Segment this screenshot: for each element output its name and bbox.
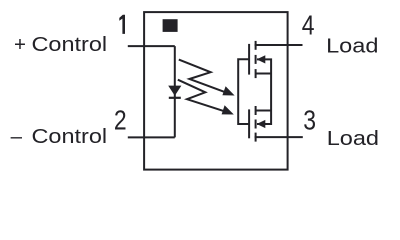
svg-text:Control: Control [32,33,108,56]
svg-text:2: 2 [114,105,127,136]
wire pin 1 (+ Control to LED anode) [128,45,175,47]
MOSFET Q1 (top, drain to pin 4) [249,41,271,78]
Q1 body arrow [257,55,266,63]
svg-text:Load: Load [327,127,379,150]
Q2 body arrow [257,120,266,128]
svg-text:Load: Load [326,34,378,57]
svg-text:3: 3 [303,105,316,136]
wire LED vertical (anode to cathode run) [174,46,176,137]
package outline U1 [144,12,288,170]
LED D1 [168,86,181,98]
light arrow 2 [178,80,234,115]
pin 1 label [119,15,125,34]
svg-text:Control: Control [32,124,108,147]
source rail (Q1/Q2 common source-body tie) [257,59,271,124]
svg-text:4: 4 [302,11,315,42]
pin 1 marker [163,19,178,32]
MOSFET Q2 (bottom, drain to pin 3) [249,106,271,142]
gate rail (photo receiver to Q1/Q2 gates) [238,59,249,124]
light arrow 1 [179,60,235,96]
svg-text:+: + [14,33,26,56]
svg-text:–: – [11,125,23,148]
wire pin 3 (Q2 drain to Load) [255,136,303,138]
wire pin 2 (LED cathode to - Control) [128,136,175,138]
wire pin 4 (Q1 drain to Load) [255,44,303,46]
